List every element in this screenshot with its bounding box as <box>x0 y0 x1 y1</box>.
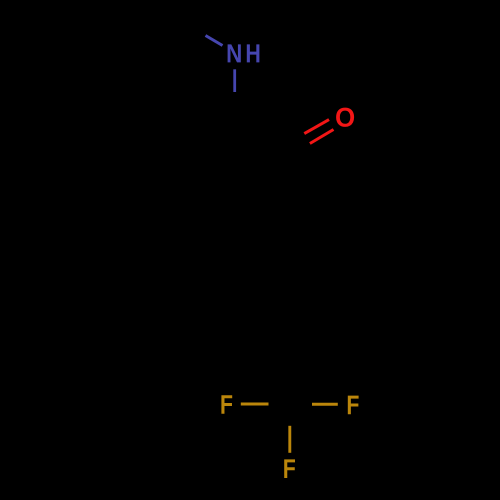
node NH: letter N <box>228 44 241 62</box>
node O: carbonyl oxygen <box>336 108 354 127</box>
node F: right fluorine <box>348 396 359 415</box>
wire: NH-C1 ring bond, N-colored half <box>233 69 236 92</box>
wire: C-F left bond, F-colored half <box>241 403 269 406</box>
wire: C=O double bond lower line, O-colored half <box>310 130 334 144</box>
wire: C=O double bond upper line, O-colored half <box>304 120 329 134</box>
wire: CH2-NH bond, N-colored half <box>206 36 223 46</box>
node NH: letter H <box>247 44 260 62</box>
wire: C-F bottom bond, F-colored half <box>288 426 291 453</box>
wire: C-F right bond, F-colored half <box>312 403 338 406</box>
node F: left fluorine <box>221 395 232 414</box>
node F: bottom fluorine <box>284 459 295 478</box>
